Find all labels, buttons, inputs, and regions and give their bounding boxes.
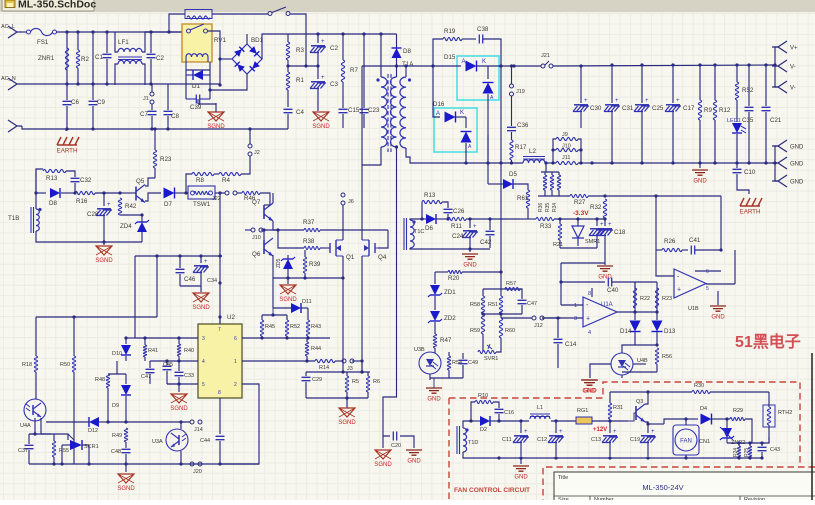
resistor R46 [237,192,242,194]
transformer T1A secondary [400,77,406,148]
svg-text:+: + [321,75,325,81]
wire collector [145,178,155,186]
svg-text:SGND: SGND [117,486,135,492]
resistor R54 [448,352,450,356]
opto U4A [24,399,46,421]
svg-text:K: K [482,59,486,65]
svg-text:V-: V- [790,86,796,92]
svg-text:SGND: SGND [207,124,225,130]
ecap C18 [604,218,606,226]
resistor R9 [699,65,701,100]
cyan box D16 [434,108,477,152]
svg-text:R52: R52 [290,324,300,330]
svg-text:GND: GND [693,179,707,185]
resistor R41 [143,345,146,357]
svg-text:R50: R50 [60,362,70,368]
capacitor C14 [557,318,559,338]
svg-text:D1: D1 [192,83,200,90]
svg-text:C3: C3 [330,81,338,88]
svg-text:R8: R8 [196,177,204,184]
ecap C17 [672,65,674,103]
resistor R42 [118,191,121,194]
wire r2425 node [727,437,769,443]
capacitor C10 [736,163,738,168]
svg-text:R22: R22 [640,296,650,302]
svg-text:D11: D11 [302,299,312,305]
svg-text:D5: D5 [509,171,517,178]
wire div mid [483,313,522,315]
svg-text:R13: R13 [424,192,436,199]
svg-text:C31: C31 [622,105,634,112]
jumper J21 [541,64,545,68]
svg-text:C42: C42 [480,239,492,246]
switch J7 [268,12,272,16]
svg-text:+: + [204,259,208,265]
svg-text:4: 4 [588,330,591,336]
capacitor C46 [179,256,181,268]
wire vplus rail [553,65,775,66]
ecap C34 [200,256,202,263]
diode D9 [125,374,127,384]
svg-text:C10: C10 [744,169,756,176]
svg-text:A: A [462,59,466,65]
wire mid winding down [396,147,398,283]
svg-text:EARTH: EARTH [740,209,761,216]
capacitor C43 [761,443,763,446]
wire [463,421,471,428]
diode D4 [686,418,698,420]
transistor Q5 [135,187,137,201]
diode D1 [186,69,210,71]
svg-text:R14: R14 [319,365,329,371]
svg-text:J21: J21 [541,53,550,59]
svg-text:R39: R39 [309,261,321,268]
ecap C2b [317,34,319,43]
wire fb node [605,195,656,197]
svg-text:GND: GND [582,389,596,395]
wire drain riser [361,66,363,190]
divider R58 R51 [483,288,522,290]
transformer T1B [36,209,39,231]
svg-text:C43: C43 [770,447,780,453]
wire c34 bottom [180,285,201,287]
svg-text:ML-350.SchDoc: ML-350.SchDoc [18,0,96,11]
svg-text:R7: R7 [350,67,358,74]
svg-text:SGND: SGND [192,305,210,311]
svg-text:LED1: LED1 [727,118,741,124]
svg-text:C12: C12 [537,437,547,443]
svg-text:J6: J6 [348,199,354,205]
svg-text:R41: R41 [148,348,158,354]
svg-text:T1B: T1B [8,215,19,222]
wire dc bus [262,34,397,59]
svg-text:R35: R35 [545,203,551,212]
wire u3a [180,422,182,429]
resistor R3 [287,34,289,42]
wire j12 [501,317,532,319]
gnd top mid [581,380,597,385]
sgnd symbol [317,108,319,111]
svg-text:6: 6 [234,336,237,342]
svg-text:R25: R25 [744,448,750,457]
svg-text:J10: J10 [252,235,261,241]
ecap C13 [609,421,611,433]
svg-text:+: + [586,315,590,322]
svg-text:C30: C30 [590,105,602,112]
capacitor C49 [459,360,468,363]
mosfet Q1 [330,240,336,256]
resistor R1 [287,60,289,72]
opto U4B [611,353,633,375]
capacitor C47b [149,361,151,368]
resistor R57 [505,287,520,290]
diode D8 [396,34,398,48]
svg-text:6: 6 [706,269,709,275]
wire [410,219,422,220]
svg-text:C16: C16 [504,410,514,416]
resistor R8 [192,172,214,175]
svg-text:AC_L: AC_L [1,24,15,30]
wire r45 r52 tie [262,314,287,316]
svg-text:+: + [608,222,612,228]
wire gnd rail mid [560,247,597,249]
svg-text:SMR1: SMR1 [585,239,600,245]
inductor L2 [523,160,545,163]
wire [215,192,225,194]
svg-text:C34: C34 [207,278,217,284]
svg-text:J14: J14 [194,427,203,433]
svg-text:C1: C1 [95,54,103,61]
svg-text:R24: R24 [733,448,739,457]
svg-text:C11: C11 [502,437,512,443]
wire pin3 riser [134,256,136,338]
svg-text:R18: R18 [22,362,32,368]
capacitor C39 [196,95,199,104]
diode D16b [465,117,467,128]
ecap C28 [102,191,105,194]
resistor R13c loop [421,202,423,219]
wire L bus [57,31,184,33]
svg-text:U3B: U3B [414,347,425,353]
opto U3A [166,429,188,451]
sgnd symbol [103,242,105,245]
svg-text:C7: C7 [140,111,148,118]
svg-text:C45: C45 [163,362,173,368]
svg-text:D7: D7 [164,201,172,208]
jumper J20 [190,462,194,466]
cyan box D15 [457,56,499,100]
wire scr [61,445,63,464]
resistor R38 [278,230,304,248]
wire pin1 net [242,360,315,362]
right border line [811,353,813,500]
svg-text:R43: R43 [311,324,321,330]
jumper J2 [249,129,251,144]
capacitor C2 [150,32,152,53]
diode D10b wire [108,373,126,375]
svg-text:J10: J10 [562,144,571,150]
jumper J6 [341,193,345,197]
svg-text:D16: D16 [433,101,445,108]
svg-text:1: 1 [574,303,577,309]
port AC_L [8,26,22,38]
resistor R33 [520,218,536,220]
wire r-mid [288,65,318,67]
svg-text:+: + [615,98,619,104]
svg-text:C39: C39 [190,104,202,111]
relay contacts [187,29,191,33]
capacitor C4 [284,109,293,112]
svg-text:R52: R52 [742,87,754,94]
pot SVR1 [482,340,484,352]
svg-text:ZD4: ZD4 [120,223,132,230]
ecap C11 [520,421,522,433]
opamp U1B [674,269,706,298]
svg-text:D12: D12 [88,428,98,434]
svg-text:+: + [524,429,528,435]
svg-text:+: + [677,287,681,294]
svg-text:R12: R12 [719,107,731,114]
resistor R32 [603,199,606,218]
svg-text:SCR1: SCR1 [84,444,99,450]
resistor R48 [106,374,109,388]
wire fan top lead [685,419,687,425]
ecap C27 [596,219,598,226]
zener ZD4 [137,222,147,232]
svg-text:D13: D13 [664,328,676,335]
svg-text:FAN: FAN [680,439,692,445]
wire [551,420,583,422]
svg-text:C21: C21 [770,117,782,124]
wire d bottoms [635,344,657,346]
svg-text:J3: J3 [347,366,353,372]
svg-text:R56: R56 [662,354,672,360]
wire sources [342,256,344,372]
resistor R21 [559,219,561,224]
transformer T1C [410,220,414,248]
svg-text:R57: R57 [506,281,516,287]
gnd fan [520,458,522,464]
svg-text:R61: R61 [517,195,529,202]
jumper J12 [532,316,536,320]
svg-text:C26: C26 [453,208,465,215]
fan bottom rail [463,452,762,458]
svg-text:R16: R16 [76,198,88,205]
port ground in [8,120,22,132]
capacitor C44 [216,436,225,439]
resistor R44 [305,342,308,356]
resistor R19 [443,37,462,40]
diode D13 [656,312,658,320]
wire [635,311,657,313]
resistor R49 [124,428,127,442]
svg-text:+: + [473,224,477,230]
resistor R56 [655,348,658,364]
svg-text:C4: C4 [296,109,304,116]
jumper J10b [251,228,255,232]
svg-text:R3: R3 [296,47,304,54]
svg-text:GND: GND [790,145,804,151]
diode D8b [36,192,46,194]
svg-text:+: + [676,98,680,104]
svg-text:GND: GND [463,263,477,269]
svg-text:C23: C23 [368,107,380,114]
svg-text:FAN CONTROL CIRCUIT: FAN CONTROL CIRCUIT [454,487,530,494]
resistor R45 [260,320,263,336]
svg-text:A: A [436,111,440,117]
resistor R59 [481,314,484,334]
svg-text:T1A: T1A [402,61,414,68]
svg-text:ZNR1: ZNR1 [38,55,55,62]
svg-text:D8: D8 [403,48,411,55]
resistor R2 [77,32,79,50]
svg-text:ZD5: ZD5 [276,258,282,268]
svg-text:U1A: U1A [601,302,613,308]
wire to Q7 [260,193,270,205]
wire [36,169,43,209]
sgnd r5 [346,398,348,408]
gnd symbol u4b [582,380,598,385]
svg-text:C47: C47 [141,374,151,380]
resistor R7 [342,34,344,60]
wire d11 up [272,278,274,308]
capacitor C15 [339,109,348,112]
svg-text:51黑电子: 51黑电子 [735,332,801,351]
wire totem [272,193,274,203]
opamp U1A [583,297,617,327]
svg-text:C19: C19 [630,437,640,443]
diode D15b [487,66,489,79]
wire j3 right [361,361,363,372]
wire q3 emitter [645,422,648,424]
thermistor RT1 [185,10,212,19]
resistors R18 R50 [34,356,37,372]
resistor R17 [511,132,513,140]
wire sgnd stem [197,99,199,104]
svg-text:R21: R21 [553,242,563,248]
svg-text:R19: R19 [444,28,456,35]
port GND2 [775,162,778,164]
svg-text:J9: J9 [562,132,568,138]
zener ZD5 [283,259,293,269]
transistor Q3 [635,406,637,420]
svg-text:L2: L2 [529,148,536,155]
title block [554,472,815,501]
resistor R11 [448,217,466,220]
wire long v x501 [500,66,502,272]
svg-text:8: 8 [218,390,221,396]
resistor R37 [304,228,320,231]
wire out rail [499,65,541,67]
port GND3 [775,163,778,181]
ecap C25 [641,65,643,103]
capacitor C42 [489,219,491,230]
resistor R12 [714,65,716,100]
svg-text:D15: D15 [444,54,456,61]
svg-text:U4B: U4B [637,358,648,364]
svg-text:R27: R27 [574,199,586,206]
svg-text:8: 8 [588,291,591,297]
svg-text:D8: D8 [49,200,57,207]
svg-text:J2: J2 [254,150,260,156]
svg-text:Q3: Q3 [636,399,643,405]
capacitor C47 [520,289,522,299]
earth symbol 2 [740,198,762,206]
svg-text:GND: GND [407,459,421,465]
capacitor C9 [92,84,94,100]
diode D2 [480,416,490,426]
jumper J1 [151,84,153,92]
svg-text:5: 5 [706,286,709,292]
svg-text:SVR1: SVR1 [484,356,498,362]
svg-text:J1: J1 [143,96,149,102]
relay RV1 box [182,24,212,62]
sgnd u2 [178,384,180,392]
resistor R24 [737,446,740,458]
gnd symbol u1a [561,262,605,264]
bottom rail [29,463,190,465]
diode D15a [433,65,461,67]
svg-text:R1: R1 [296,77,304,84]
svg-text:R2: R2 [81,56,89,63]
svg-text:C20: C20 [391,443,401,449]
svg-text:D14: D14 [620,328,632,335]
svg-text:SGND: SGND [95,258,113,264]
svg-text:C47: C47 [527,301,537,307]
svg-text:5: 5 [202,382,205,388]
svg-text:1: 1 [234,359,237,365]
capacitor C7 [151,104,153,110]
wire u1b out [706,283,735,285]
resistor R23 [153,150,156,168]
port V+ [775,47,778,65]
svg-text:LF1: LF1 [118,39,129,46]
sgnd q6 [287,278,289,284]
svg-text:+: + [321,39,325,45]
wire sec bottom [406,148,523,163]
svg-text:C17: C17 [683,105,695,112]
svg-text:U3A: U3A [152,439,163,445]
svg-text:R10: R10 [478,393,488,399]
choke LF1 [115,32,118,52]
inductor L1 [530,416,550,419]
resistor R16 [70,192,75,194]
wire [538,195,570,197]
svg-text:R38: R38 [303,238,315,245]
jumper J14 [190,420,194,424]
svg-text:C33: C33 [184,373,194,379]
svg-text:C2: C2 [156,55,164,62]
red dashed fan box [449,382,815,500]
svg-text:Title: Title [558,475,568,481]
svg-text:R5: R5 [352,379,359,385]
svg-text:R32: R32 [590,204,602,211]
wire u4a emitter [41,418,51,434]
resistor R22 [633,288,636,308]
svg-text:GND: GND [790,180,804,186]
svg-text:C8: C8 [171,113,179,120]
svg-text:Q1: Q1 [346,254,355,261]
capacitor C40 fb [561,281,605,283]
svg-text:R31: R31 [613,405,623,411]
svg-text:C41: C41 [689,237,701,244]
resistor R43 [306,320,309,336]
svg-text:C18: C18 [614,229,626,236]
sgnd rail [125,464,127,472]
wire primary bottom [362,147,381,165]
svg-text:C28: C28 [87,211,99,218]
window tab bar [0,0,815,12]
